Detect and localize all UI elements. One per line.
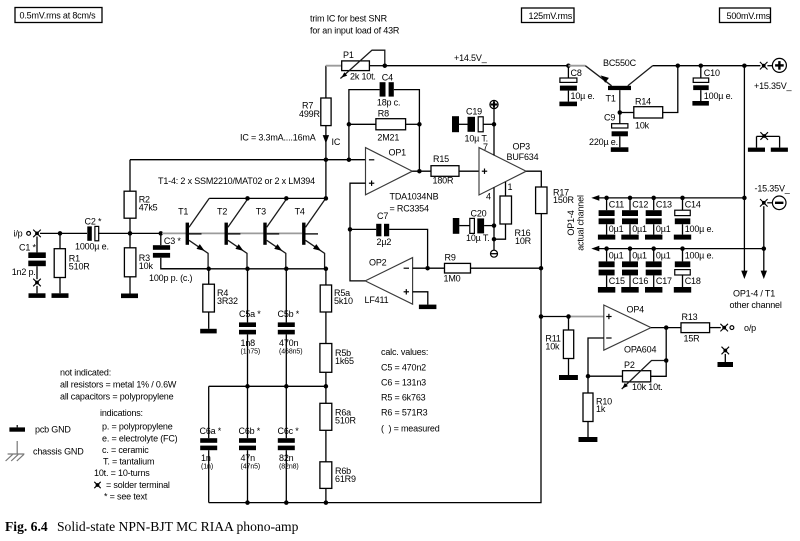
label T1-4 types: [158, 176, 315, 186]
svg-text:C10: C10: [704, 68, 720, 78]
svg-text:C6 = 131n3: C6 = 131n3: [381, 378, 426, 388]
wire R17/R9 junction down to OP4: [539, 266, 544, 319]
ground C10: [692, 101, 709, 106]
resistor R7: [299, 66, 331, 160]
svg-text:100µ e.: 100µ e.: [685, 251, 714, 261]
svg-text:T. = tantalium: T. = tantalium: [103, 457, 154, 467]
ground C16: [621, 287, 638, 293]
svg-text:1: 1: [508, 182, 513, 192]
ground C14: [674, 235, 691, 240]
wire OP4 inverting input: [586, 338, 604, 378]
resistor R11: [545, 317, 573, 376]
svg-text:125mV.rms: 125mV.rms: [529, 11, 573, 21]
capacitor C17: [646, 249, 672, 287]
capacitor C7: [348, 211, 428, 268]
ground C12: [621, 235, 638, 240]
wire bottom return rail: [209, 317, 541, 505]
svg-text:= solder terminal: = solder terminal: [106, 480, 170, 490]
op-amp OP1: [366, 147, 439, 213]
svg-text:+15.35V_: +15.35V_: [754, 81, 793, 91]
resistor R16: [494, 182, 532, 246]
svg-text:10R: 10R: [515, 236, 532, 246]
svg-text:indications:: indications:: [100, 408, 143, 418]
output level label box: [720, 8, 771, 23]
svg-text:C9: C9: [604, 113, 615, 123]
capacitor C11: [599, 198, 625, 235]
svg-text:499R: 499R: [299, 109, 320, 119]
svg-text:C7: C7: [377, 211, 388, 221]
svg-text:0µ1: 0µ1: [609, 251, 624, 261]
svg-text:C19: C19: [466, 107, 482, 117]
legend solder terminal: [94, 480, 170, 490]
chassis 0V terminal bracket: [748, 132, 788, 152]
plus supply symbol pin7: [490, 100, 498, 108]
svg-text:(82n8): (82n8): [279, 463, 299, 470]
wire OP3 pin7 supply: [492, 109, 497, 156]
svg-text:= RC3354: = RC3354: [390, 204, 430, 214]
ground R3: [121, 294, 138, 299]
capacitor C10: [693, 66, 733, 101]
svg-text:BUF634: BUF634: [507, 152, 539, 162]
svg-text:OP1-4: OP1-4: [566, 210, 576, 235]
resistor R6b: [320, 462, 356, 503]
svg-text:C1 *: C1 *: [19, 243, 36, 253]
svg-text:4: 4: [486, 191, 491, 201]
ground output: [718, 362, 734, 367]
svg-text:0µ1: 0µ1: [632, 251, 647, 261]
capacitor C19: [452, 107, 494, 144]
svg-text:10k: 10k: [139, 261, 154, 271]
svg-text:0µ1: 0µ1: [656, 224, 671, 234]
svg-text:C5b *: C5b *: [278, 309, 300, 319]
svg-text:i/p: i/p: [14, 229, 23, 239]
svg-text:C6c *: C6c *: [278, 426, 300, 436]
svg-text:R5 = 6k763: R5 = 6k763: [381, 393, 426, 403]
svg-text:+14.5V_: +14.5V_: [454, 53, 488, 63]
svg-text:(1n75): (1n75): [241, 348, 261, 355]
svg-text:3R32: 3R32: [217, 296, 238, 306]
svg-text:10k: 10k: [545, 341, 560, 351]
svg-text:C17: C17: [656, 276, 672, 286]
svg-text:OPA604: OPA604: [624, 344, 656, 354]
ground R11: [559, 375, 578, 380]
svg-text:C15: C15: [609, 276, 625, 286]
svg-text:o/p: o/p: [744, 323, 756, 333]
wire OP3 output: [526, 171, 541, 187]
svg-text:R15: R15: [433, 154, 449, 164]
wire OP3 pin4 supply: [492, 187, 497, 250]
svg-text:T4: T4: [295, 207, 305, 217]
svg-text:* = see text: * = see text: [104, 492, 148, 502]
legend see text: [104, 492, 148, 502]
svg-text:1n8: 1n8: [241, 338, 256, 348]
svg-text:e. = electrolyte (FC): e. = electrolyte (FC): [102, 434, 178, 444]
svg-text:p. = polypropylene: p. = polypropylene: [102, 422, 173, 432]
node i/p input terminal: [14, 229, 41, 239]
resistor R1: [54, 233, 90, 293]
svg-text:61R9: 61R9: [335, 474, 356, 484]
svg-text:10µ e.: 10µ e.: [571, 91, 595, 101]
svg-text:180R: 180R: [433, 176, 454, 186]
trim note: [310, 14, 400, 36]
svg-text:82n: 82n: [279, 453, 294, 463]
ground R4: [200, 329, 217, 334]
capacitor C14: [675, 198, 714, 235]
svg-text:all capacitors = polypropylene: all capacitors = polypropylene: [60, 392, 174, 402]
svg-text:5k10: 5k10: [334, 296, 353, 306]
resistor R9: [413, 252, 541, 283]
resistor R5b: [320, 344, 354, 404]
svg-text:IC: IC: [332, 137, 341, 147]
wire negative dist rail: [591, 246, 764, 252]
svg-text:2M21: 2M21: [377, 133, 399, 143]
svg-text:220µ e.: 220µ e.: [589, 137, 618, 147]
svg-text:C13: C13: [656, 200, 672, 210]
ground R1: [52, 293, 69, 298]
ground C18: [674, 287, 691, 293]
svg-text:0µ1: 0µ1: [609, 224, 624, 234]
capacitor C4: [349, 73, 420, 172]
IC current arrow: [323, 135, 341, 147]
svg-text:C8: C8: [571, 68, 582, 78]
svg-text:1000µ e.: 1000µ e.: [75, 241, 109, 251]
wire +15.35V rail: [653, 63, 761, 68]
svg-text:15R: 15R: [684, 334, 701, 344]
svg-text:BC550C: BC550C: [603, 58, 637, 68]
capacitor C6c: [278, 386, 300, 502]
svg-text:T1: T1: [606, 93, 616, 103]
wire +15.35V feed down: [741, 66, 747, 279]
svg-text:47k5: 47k5: [139, 203, 158, 213]
transistor T4: [295, 198, 326, 268]
label actual channel (rotated): [566, 195, 586, 251]
svg-text:150R: 150R: [553, 195, 574, 205]
ground C11: [598, 235, 615, 240]
ground R10: [579, 437, 598, 442]
svg-text:T1: T1: [178, 207, 188, 217]
svg-text:R9: R9: [445, 252, 456, 262]
capacitor C9: [589, 113, 628, 148]
svg-text:P2: P2: [624, 360, 635, 370]
wire C3 to emitter rail: [161, 258, 209, 269]
svg-text:C16: C16: [632, 276, 648, 286]
svg-text:1k65: 1k65: [335, 356, 354, 366]
svg-text:C14: C14: [685, 200, 701, 210]
svg-text:(47n5): (47n5): [241, 463, 261, 470]
svg-text:470n: 470n: [279, 338, 298, 348]
svg-text:c. = ceramic: c. = ceramic: [102, 445, 149, 455]
resistor R17: [536, 187, 575, 268]
transistor T3: [256, 198, 287, 268]
svg-text:all resistors = metal 1% / 0.6: all resistors = metal 1% / 0.6W: [60, 380, 177, 390]
svg-text:TDA1034NB: TDA1034NB: [390, 191, 439, 201]
svg-text:100p p. (c.): 100p p. (c.): [149, 273, 193, 283]
resistor R14: [620, 66, 678, 131]
wire collector rail to IC line: [325, 160, 327, 199]
capacitor C3: [149, 233, 193, 282]
svg-text:1k: 1k: [596, 404, 606, 414]
node wire C5/C6 mid rail: [209, 384, 328, 389]
svg-text:C3 *: C3 *: [164, 236, 181, 246]
svg-text:not indicated:: not indicated:: [60, 368, 111, 378]
wire positive dist rail: [591, 195, 744, 201]
resistor R2: [124, 160, 158, 234]
svg-text:C6a *: C6a *: [200, 426, 222, 436]
svg-text:C11: C11: [609, 200, 624, 210]
svg-text:1M0: 1M0: [444, 274, 461, 284]
calc values text: [381, 347, 440, 434]
svg-text:IC = 3.3mA....16mA: IC = 3.3mA....16mA: [240, 133, 316, 143]
wire -15.35V feed down: [761, 206, 767, 279]
resistor R6a: [320, 403, 357, 462]
capacitor C5b: [278, 269, 303, 387]
capacitor C18: [675, 249, 714, 287]
svg-text:-15.35V_: -15.35V_: [755, 183, 791, 193]
svg-text:T1-4: 2 x SSM2210/MAT02 or 2 x: T1-4: 2 x SSM2210/MAT02 or 2 x LM394: [158, 176, 315, 186]
wire +14.5V rail: [385, 53, 571, 68]
resistor R10: [583, 376, 612, 437]
svg-text:for an input load of 43R: for an input load of 43R: [310, 26, 400, 36]
label other channel: [730, 289, 782, 311]
svg-text:10k: 10k: [635, 121, 650, 131]
ground C9: [611, 147, 629, 152]
op-amp OP4: [604, 305, 657, 355]
resistor R5a: [320, 269, 353, 344]
svg-text:2k 10t.: 2k 10t.: [350, 71, 376, 81]
svg-text:10k 10t.: 10k 10t.: [632, 382, 663, 392]
minus supply symbol pin4: [490, 250, 498, 257]
svg-text:OP4: OP4: [627, 305, 645, 315]
emitter rail: [161, 267, 328, 272]
base rail (gray): [162, 232, 302, 234]
wire OP2 + input to ground: [413, 292, 428, 305]
svg-text:510R: 510R: [335, 415, 356, 425]
node T1 base: [618, 110, 623, 115]
legend pcb GND: [9, 424, 71, 434]
svg-text:0µ1: 0µ1: [656, 251, 671, 261]
svg-text:T2: T2: [217, 207, 227, 217]
wire C2 to bases: [98, 231, 163, 236]
node o/p terminal: [720, 323, 756, 333]
op-amp OP2: [365, 258, 413, 306]
ground C8: [559, 102, 577, 107]
capacitor C12: [622, 198, 648, 235]
svg-text:47n: 47n: [241, 453, 256, 463]
wire OP1 output: [412, 169, 431, 174]
figure caption: [5, 519, 299, 534]
svg-text:(1n): (1n): [201, 463, 213, 470]
svg-text:P1: P1: [343, 50, 354, 60]
node P1 output: [383, 63, 388, 68]
capacitor C16: [622, 249, 648, 287]
wire input line to C2: [40, 231, 87, 236]
svg-text:100µ e.: 100µ e.: [685, 224, 714, 234]
svg-text:0µ1: 0µ1: [632, 224, 647, 234]
capacitor C5a: [239, 269, 261, 387]
svg-text:LF411: LF411: [365, 295, 389, 305]
node +15.35V terminal: [754, 58, 793, 91]
svg-text:1n2 p.: 1n2 p.: [12, 267, 36, 277]
transistor T1: [178, 198, 209, 268]
wire OP2 output to OP1 +: [350, 229, 365, 281]
notes not indicated: [60, 368, 177, 402]
resistor R13: [681, 312, 721, 344]
capacitor C2: [75, 216, 109, 251]
svg-text:C5a *: C5a *: [239, 309, 261, 319]
svg-text:T3: T3: [256, 207, 266, 217]
ground C1: [29, 293, 46, 298]
wire OP4 + input: [541, 314, 604, 319]
svg-text:chassis GND: chassis GND: [33, 446, 84, 456]
capacitor C15: [599, 249, 625, 287]
wire IC label: [240, 133, 316, 143]
svg-text:10µ T.: 10µ T.: [466, 233, 489, 243]
svg-text:OP2: OP2: [369, 258, 387, 268]
capacitor C1: [12, 237, 46, 280]
svg-text:C4: C4: [382, 73, 393, 83]
wire OP1 noninverting input: [350, 183, 366, 229]
capacitor C6a: [200, 386, 222, 502]
svg-text:calc. values:: calc. values:: [381, 347, 428, 357]
svg-text:500mV.rms: 500mV.rms: [727, 11, 771, 21]
svg-text:510R: 510R: [69, 262, 90, 272]
ground C17: [645, 287, 662, 293]
svg-text:C5 = 470n2: C5 = 470n2: [381, 363, 426, 373]
svg-text:OP1-4 / T1: OP1-4 / T1: [733, 289, 775, 299]
legend indications: [94, 408, 178, 478]
svg-text:(468n5): (468n5): [279, 348, 302, 355]
capacitor C20: [453, 208, 494, 242]
svg-text:10µ T.: 10µ T.: [465, 134, 488, 144]
svg-text:0.5mV.rms at 8cm/s: 0.5mV.rms at 8cm/s: [20, 11, 97, 21]
solder terminal below C1: [33, 279, 41, 294]
svg-text:C2 *: C2 *: [85, 216, 102, 226]
svg-text:100µ e.: 100µ e.: [704, 91, 733, 101]
svg-text:R8: R8: [378, 109, 389, 119]
transistor T2: [217, 198, 248, 268]
svg-text:C20: C20: [471, 208, 487, 218]
wire R2 top to OP1 inverting input: [130, 157, 366, 162]
capacitor C6b: [239, 386, 261, 502]
potentiometer P2: [588, 328, 668, 392]
svg-text:1n: 1n: [201, 453, 211, 463]
transistor T1 BC550C: [568, 58, 652, 112]
svg-text:R6 = 571R3: R6 = 571R3: [381, 408, 428, 418]
collector rail: [209, 196, 328, 201]
mid level label box: [522, 8, 575, 23]
ground OP2: [419, 305, 437, 310]
svg-text:OP1: OP1: [389, 147, 407, 157]
resistor R3: [124, 233, 153, 293]
op-amp OP3: [479, 142, 539, 202]
svg-text:Solid-state NPN-BJT MC RIAA ph: Solid-state NPN-BJT MC RIAA phono-amp: [57, 519, 299, 534]
resistor R15: [431, 154, 479, 185]
svg-text:C6b *: C6b *: [239, 426, 261, 436]
svg-text:OP3: OP3: [513, 142, 531, 152]
svg-text:Fig. 6.4: Fig. 6.4: [5, 519, 48, 534]
svg-text:other channel: other channel: [730, 300, 782, 310]
node -15.35V terminal: [755, 183, 791, 209]
legend chassis GND: [6, 441, 85, 461]
svg-text:18p c.: 18p c.: [377, 97, 400, 107]
svg-text:R14: R14: [635, 96, 651, 106]
input level label box: [15, 8, 102, 23]
svg-text:pcb GND: pcb GND: [35, 424, 71, 434]
resistor R4: [203, 269, 238, 329]
capacitor C8: [560, 66, 595, 102]
svg-text:C12: C12: [632, 200, 648, 210]
ground C15: [598, 287, 615, 293]
svg-text:10t. = 10-turns: 10t. = 10-turns: [94, 468, 150, 478]
svg-text:C18: C18: [685, 276, 701, 286]
wire OP4 output: [651, 325, 681, 330]
svg-text:R13: R13: [682, 312, 698, 322]
output ground terminal: [722, 347, 730, 362]
capacitor C13: [646, 198, 672, 235]
svg-text:( ) = measured: ( ) = measured: [381, 424, 440, 434]
potentiometer P1: [326, 50, 385, 81]
svg-text:2µ2: 2µ2: [377, 237, 392, 247]
ground C13: [645, 235, 662, 240]
svg-text:actual channel: actual channel: [576, 195, 586, 251]
svg-text:trim IC for best SNR: trim IC for best SNR: [310, 14, 388, 24]
resistor R8: [347, 109, 422, 143]
